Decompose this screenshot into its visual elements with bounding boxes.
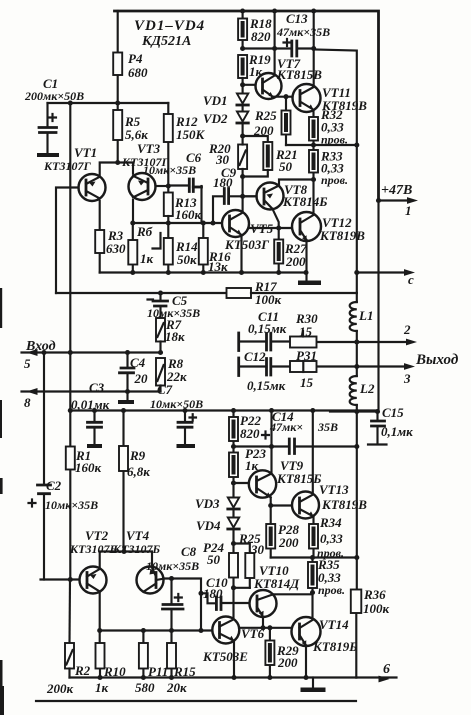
resistor R19 (238, 52, 271, 93)
svg-text:150К: 150К (176, 127, 206, 142)
svg-text:200: 200 (277, 655, 298, 670)
node dot x357 y446 (354, 444, 359, 449)
svg-text:47мк×35В: 47мк×35В (276, 25, 330, 39)
wire VT5 right to VT12 base (249, 227, 292, 229)
capacitor C11 (239, 309, 290, 351)
diode VD2 (203, 111, 248, 136)
emitter bar VT2 VT4 (100, 552, 152, 567)
capacitor C8 (146, 544, 199, 631)
svg-text:10мк×35В: 10мк×35В (143, 163, 196, 177)
diode VD4 (196, 518, 239, 544)
capacitor C14 (262, 409, 338, 454)
arrow input 8 (27, 388, 38, 395)
node dot C13 right (311, 46, 316, 51)
svg-text:пров.: пров. (318, 583, 345, 597)
svg-text:КТ819Б: КТ819Б (312, 639, 358, 654)
node dot R10 top (97, 628, 102, 633)
resistor R13 (164, 193, 202, 224)
wire bottom rail y677.5 (70, 676, 357, 678)
node dot R1 R2 base (68, 577, 73, 582)
arrow common (354, 269, 415, 287)
node dot C15 top (375, 409, 380, 414)
capacitor C7 (150, 382, 203, 448)
svg-text:10мк×50В: 10мк×50В (150, 397, 203, 411)
node dot L2 out (354, 364, 359, 369)
node dot R10 bottom (97, 675, 102, 680)
wire top +rail (115, 11, 379, 201)
svg-text:+47В: +47В (381, 183, 412, 198)
svg-text:200мк×50В: 200мк×50В (24, 89, 84, 103)
wire VT8 base (243, 195, 257, 197)
label out2 (403, 322, 459, 386)
capacitor C3 (87, 411, 102, 449)
node dot VT14 emitter bottom (303, 675, 308, 680)
node dot R29 bottom (267, 675, 272, 680)
resistor R21 (243, 142, 298, 177)
svg-text:6,8к: 6,8к (127, 464, 150, 479)
wire L2 bottom to C15 (330, 410, 378, 412)
wire VT2 base (41, 578, 80, 580)
svg-text:VD1–VD4: VD1–VD4 (134, 18, 205, 34)
wire node line y103 (48, 102, 169, 104)
node dot R33 bottom (311, 177, 316, 182)
wire VT10 collector line (273, 593, 313, 595)
svg-text:VD1: VD1 (203, 93, 228, 108)
node dot C5 top (158, 290, 163, 295)
diode VD3 (195, 483, 239, 518)
svg-text:50: 50 (279, 159, 293, 174)
svg-text:с: с (408, 272, 414, 287)
node dot R24 R26 (231, 585, 236, 590)
svg-text:КТ814Б: КТ814Б (282, 194, 328, 209)
node dot R4/line (115, 100, 120, 105)
node dot VD4 bottom (231, 541, 236, 546)
wire driver line y446.5 (234, 445, 357, 447)
svg-text:580: 580 (135, 680, 155, 695)
svg-text:С3: С3 (89, 380, 105, 395)
node dot R13/R14 (166, 220, 171, 225)
svg-text:Выход: Выход (415, 352, 459, 368)
svg-text:15: 15 (299, 324, 313, 339)
wire VT3 base to x168 (156, 185, 169, 187)
svg-text:С13: С13 (286, 11, 308, 26)
transistor VT12 (292, 212, 365, 243)
ground input (118, 392, 134, 405)
svg-text:КТ819В: КТ819В (319, 228, 365, 243)
wire feedback line y293 left (56, 292, 227, 294)
arrow input 5 (27, 349, 38, 356)
wire VT7 emitter to VT11 base (272, 96, 293, 98)
svg-text:0,15мк: 0,15мк (247, 378, 286, 393)
node dot R15 C8 (169, 628, 174, 633)
node dot R27 bottom (276, 270, 281, 275)
svg-text:20к: 20к (166, 680, 187, 695)
resistor R8 (156, 356, 187, 392)
node dot C7 top (182, 408, 187, 413)
wire VT9 collector riser (270, 447, 272, 474)
resistor R28 (266, 506, 299, 558)
resistor R14 (164, 223, 198, 273)
wire VT5 emitter down (240, 235, 242, 272)
svg-text:5: 5 (24, 356, 31, 371)
wire R19 to VT7 base (243, 84, 256, 86)
svg-text:160к: 160к (175, 207, 202, 222)
svg-text:VT14: VT14 (319, 617, 349, 632)
node dot x272 top (269, 408, 274, 413)
svg-text:С2: С2 (46, 478, 62, 493)
node dot R25 top (283, 94, 288, 99)
wire VT9 emitter (270, 497, 272, 505)
transistor VT2 (69, 528, 117, 594)
resistor R23 (229, 446, 266, 483)
node dot R11 bottom (141, 675, 146, 680)
svg-text:50к: 50к (177, 252, 197, 267)
svg-text:R9: R9 (129, 448, 146, 463)
resistor R25 (253, 97, 291, 145)
node dot R9 bottom (121, 549, 126, 554)
transistor VT6 (202, 617, 265, 665)
resistor R15 (166, 631, 196, 696)
resistor R36 (351, 558, 390, 678)
wire VT3 collector (132, 200, 134, 223)
svg-text:6: 6 (383, 662, 390, 677)
svg-text:R2: R2 (74, 663, 91, 678)
svg-text:С15: С15 (382, 405, 404, 420)
resistor R2 (46, 580, 91, 697)
transistor VT1 (43, 145, 106, 201)
wire R26 bottom link (234, 587, 250, 589)
svg-text:180: 180 (203, 586, 223, 601)
wire C10 branch (201, 593, 216, 603)
wire driver lower line y557.5 (271, 556, 357, 558)
wire VT8 emitter (273, 209, 279, 228)
svg-text:5,6к: 5,6к (125, 127, 148, 142)
svg-text:С4: С4 (130, 355, 146, 370)
node dot R5 emitters (115, 160, 120, 165)
resistor R6 (128, 223, 153, 273)
resistor R26 trimmer (234, 531, 265, 588)
svg-text:Вход: Вход (25, 339, 56, 354)
svg-text:VT4: VT4 (126, 528, 150, 543)
node dot R9 top (121, 408, 126, 413)
node dot R1 top (68, 408, 73, 413)
wire bias line y410.5 (70, 409, 378, 411)
wire bias line y223 (133, 222, 222, 224)
node dot C9 VT5c cross (240, 194, 245, 199)
node dot x357 y557 (354, 555, 359, 560)
wire VT1 base (56, 188, 79, 294)
svg-text:Р31: Р31 (296, 348, 317, 363)
wire R18 junction to C13 (243, 47, 292, 49)
svg-text:10мк×35В: 10мк×35В (146, 559, 199, 573)
node dot VT4 line corner (198, 628, 203, 633)
wire ground line y272.5 (100, 271, 306, 273)
wire lower base line y630.5 (100, 629, 213, 631)
node dot VT12 ground (303, 270, 308, 275)
resistor R30 (290, 311, 318, 348)
node dot R15 bottom (169, 675, 174, 680)
svg-text:20: 20 (134, 371, 149, 386)
svg-text:820: 820 (240, 426, 260, 441)
svg-text:200к: 200к (46, 681, 74, 696)
capacitor C3 labels (71, 380, 110, 412)
svg-text:VT2: VT2 (85, 528, 109, 543)
svg-text:1к: 1к (95, 680, 109, 695)
node dot x70/line (68, 100, 73, 105)
node dot R18/R19 (240, 46, 245, 51)
svg-text:КТ503Е: КТ503Е (202, 649, 248, 664)
svg-text:10мк×35В: 10мк×35В (45, 498, 98, 512)
svg-text:L2: L2 (359, 381, 375, 396)
resistor R29 (265, 628, 299, 678)
svg-text:VT1: VT1 (74, 145, 97, 160)
wire R20 junction to VT5 collector (242, 177, 244, 213)
wire R33 bottom to VT8 collector (279, 180, 314, 185)
resistor R27 (274, 228, 307, 273)
node dot R11 top (141, 628, 146, 633)
resistor R32 (309, 107, 348, 147)
inductor L1 (350, 293, 374, 342)
wire bottom border (36, 700, 356, 702)
node dot R22 top (231, 408, 236, 413)
svg-text:3: 3 (403, 371, 411, 386)
node dot R35 top (310, 555, 315, 560)
wire VT7 collector (274, 11, 276, 75)
svg-text:160к: 160к (75, 460, 102, 475)
svg-text:КТ3107Б: КТ3107Б (69, 542, 117, 556)
resistor R5 (113, 103, 148, 163)
resistor R12 (164, 103, 206, 193)
node dot VT10 emitter (260, 625, 265, 630)
node dot VT3c/R6 (130, 220, 135, 225)
wire VT13 collector riser (312, 411, 314, 495)
node dot VT7 collector cross (272, 46, 277, 51)
node dot R20 bottom (240, 174, 245, 179)
wire x44 down to C2 (43, 353, 45, 484)
node dot R22 R23 (231, 444, 236, 449)
wire VT14 emitter (305, 645, 307, 677)
svg-text:С7: С7 (157, 382, 173, 397)
ground VT12 (298, 281, 321, 286)
node dot VT14 collector (310, 590, 315, 595)
wire right rail x357 lower (356, 412, 358, 558)
svg-text:8: 8 (24, 395, 31, 410)
svg-text:VT3: VT3 (137, 141, 161, 156)
resistor R17 (227, 279, 282, 307)
node dot input x70 (68, 350, 73, 355)
capacitor C4 (120, 353, 149, 392)
svg-text:VT13: VT13 (319, 482, 349, 497)
transistor VT5 (222, 210, 274, 252)
wire VT14 base line (239, 627, 292, 629)
transistor VT11 (293, 84, 368, 113)
svg-text:L1: L1 (358, 308, 373, 323)
node dot x357 y145 (354, 142, 359, 147)
capacitor C13 (276, 11, 330, 56)
svg-text:1к: 1к (140, 251, 154, 266)
node dot rail R18 (240, 8, 245, 13)
node dot R14 bottom (166, 270, 171, 275)
transistor VT13 (292, 482, 367, 519)
svg-text:КТ503Г: КТ503Г (224, 237, 269, 252)
svg-text:100к: 100к (363, 601, 390, 616)
inductor L2 (350, 342, 375, 412)
node dot R16 bottom (201, 270, 206, 275)
svg-text:С8: С8 (181, 544, 197, 559)
node dot C9 tap (210, 220, 215, 225)
resistor R16 (199, 223, 231, 274)
wire lower input line y391.5 (22, 390, 161, 392)
resistor R18 (238, 11, 272, 49)
svg-text:VD4: VD4 (196, 518, 221, 533)
svg-text:пров.: пров. (321, 173, 348, 187)
capacitor C5 (147, 293, 200, 320)
transistor VT7 (256, 56, 323, 99)
resistor R1 (66, 411, 102, 580)
node dot C6 tap (166, 183, 171, 188)
svg-text:VD3: VD3 (195, 496, 220, 511)
ground bottom (301, 678, 326, 693)
svg-text:VD2: VD2 (203, 111, 228, 126)
svg-text:R36: R36 (363, 587, 386, 602)
node dot input R7 R8 (158, 350, 163, 355)
arrow output2 (406, 339, 417, 346)
node dot L1 out (354, 339, 359, 344)
wiper R14 (153, 233, 161, 249)
capacitor C12 (239, 349, 290, 393)
input labels (24, 339, 56, 410)
resistor R24 (203, 540, 238, 619)
node dot R16 top (201, 220, 206, 225)
node dot L2 bottom line (354, 409, 359, 414)
svg-text:30: 30 (250, 542, 265, 557)
svg-text:КТ3107Б: КТ3107Б (112, 542, 160, 556)
wire VT4 collector to VT6 base (163, 579, 201, 631)
resistor R22 (229, 411, 261, 447)
node dot R23 bottom (231, 480, 236, 485)
capacitor C6 (143, 150, 202, 223)
wire VT13 base line (271, 504, 292, 506)
transistor VT8 (257, 182, 328, 210)
svg-text:КТ3107Г: КТ3107Г (43, 159, 91, 173)
wire x70 input riser (69, 103, 71, 411)
svg-text:2: 2 (403, 322, 411, 337)
node dot rail VT7 (272, 8, 277, 13)
node dot VT6 emitter bottom (231, 675, 236, 680)
svg-text:КД521А: КД521А (141, 34, 191, 49)
node dot C3 top (92, 408, 97, 413)
node dot C10 branch (198, 591, 203, 596)
wire to R21 top (243, 136, 268, 142)
node dot x313 top (310, 408, 315, 413)
resistor R33 (309, 145, 348, 187)
arrow terminal 6 (356, 662, 396, 682)
resistor R4 (113, 11, 148, 103)
svg-text:КТ815Б: КТ815Б (276, 471, 322, 486)
svg-text:1: 1 (405, 203, 412, 218)
node dot VT9 collector (269, 444, 274, 449)
node dot R29 top (267, 625, 272, 630)
capacitor C1 (24, 76, 84, 157)
svg-text:680: 680 (128, 65, 148, 80)
wire VT9 base (234, 482, 249, 484)
arrow output3 (404, 363, 415, 370)
label VD1-VD4 type (134, 18, 205, 49)
wire VT12 collector (312, 180, 314, 215)
wire VT14 collector riser (311, 593, 313, 619)
wire output3 line (317, 365, 410, 367)
resistor R11 (135, 631, 168, 696)
svg-text:180: 180 (213, 175, 233, 190)
wire node y145 (286, 144, 357, 146)
node dot input x44 (41, 350, 46, 355)
node dot C8 top (169, 576, 174, 581)
wire output2 line (317, 341, 412, 343)
node dot R6 bottom (130, 270, 135, 275)
node dot R27 top (276, 225, 281, 230)
svg-text:КТ815В: КТ815В (276, 67, 322, 82)
wire VT12 emitter to ground (305, 241, 307, 281)
capacitor C9 (213, 165, 257, 223)
resistor R3 (95, 201, 126, 273)
svg-text:50: 50 (207, 552, 221, 567)
svg-text:630: 630 (106, 241, 126, 256)
svg-text:200: 200 (285, 254, 306, 269)
svg-text:47мк×: 47мк× (269, 420, 303, 434)
node dot R19 bottom (240, 82, 245, 87)
resistor R31 (290, 348, 317, 390)
svg-text:200: 200 (253, 123, 274, 138)
node dot R28 top (268, 503, 273, 508)
svg-text:Р4: Р4 (128, 51, 143, 66)
transistor VT10 (250, 563, 301, 617)
node dot VT5 emitter (239, 270, 244, 275)
node dot VD2 bottom (240, 133, 245, 138)
capacitor C2 (29, 478, 99, 580)
wire VT2 collector (99, 593, 101, 631)
node dot R32 bottom (311, 142, 316, 147)
node dot rail x313 (311, 8, 316, 13)
svg-text:820: 820 (251, 29, 271, 44)
resistor R34 (309, 515, 344, 560)
resistor R35 (308, 557, 345, 597)
svg-text:Rб: Rб (136, 224, 153, 239)
svg-text:0,1мк: 0,1мк (381, 424, 413, 439)
capacitor C15 (368, 405, 413, 445)
svg-text:35В: 35В (317, 420, 338, 434)
resistor R20 (208, 136, 247, 177)
wire right rail lower (377, 201, 379, 412)
wire feedback line y293 right (251, 292, 357, 294)
wire VT6 emitter (233, 641, 235, 678)
transistor VT3 (121, 141, 169, 200)
resistor R10 (95, 631, 126, 696)
wire emitters VT1 VT3 (100, 163, 133, 177)
svg-text:КТ814Д: КТ814Д (253, 576, 300, 591)
wire C13 right to x357 (314, 50, 357, 294)
wire VT11 collector from rail (313, 11, 315, 86)
svg-text:100к: 100к (255, 292, 282, 307)
diode VD1 (203, 93, 248, 112)
wire input line y352.5 (22, 351, 161, 353)
resistor R9 (119, 411, 150, 552)
svg-text:R34: R34 (319, 515, 342, 530)
svg-text:R25: R25 (254, 108, 277, 123)
capacitor C10 (203, 575, 250, 610)
node dot C4 bottom (125, 389, 130, 394)
resistor R7 (156, 317, 185, 353)
svg-text:0,15мк: 0,15мк (248, 321, 287, 336)
